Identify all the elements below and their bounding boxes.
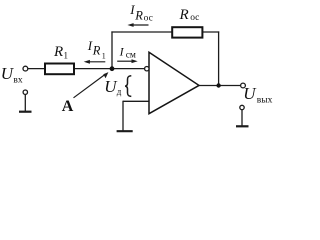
svg-text:1: 1 — [102, 51, 106, 60]
svg-text:R: R — [134, 8, 143, 22]
svg-text:вх: вх — [13, 76, 22, 86]
svg-text:R: R — [53, 44, 63, 60]
svg-text:R: R — [179, 7, 189, 23]
svg-text:I: I — [129, 2, 135, 17]
svg-text:ос: ос — [190, 13, 199, 23]
svg-text:вых: вых — [257, 95, 273, 105]
svg-text:д: д — [117, 87, 122, 97]
svg-text:см: см — [126, 50, 136, 60]
svg-text:U: U — [243, 84, 257, 103]
svg-text:А: А — [62, 98, 74, 115]
svg-text:1: 1 — [64, 51, 69, 61]
svg-text:R: R — [92, 43, 101, 57]
svg-text:ос: ос — [144, 13, 153, 23]
svg-text:I: I — [119, 45, 125, 59]
